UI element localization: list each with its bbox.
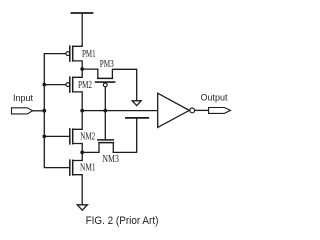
node B junction (NM1 drain / NM2 source / NM3 source)	[80, 151, 84, 155]
wire NM3 drain to VDD T-bar	[113, 119, 136, 153]
transistor NM1	[70, 152, 82, 204]
wire VDD rail to PM1 source	[73, 14, 83, 47]
svg-text:NM2: NM2	[80, 132, 95, 143]
node X junction (PM3/NM3 gates tap)	[103, 109, 107, 113]
node X junction (PM2/NM2 drains)	[80, 109, 84, 113]
junction on bus (input tap)	[42, 109, 46, 113]
junction on bus (NM2 gate tap)	[42, 135, 46, 139]
ground (PM3 drain arrow)	[132, 101, 141, 106]
svg-text:FIG. 2 (Prior Art): FIG. 2 (Prior Art)	[86, 215, 159, 227]
transistor PM2	[66, 69, 82, 111]
svg-text:PM2: PM2	[78, 80, 92, 91]
output terminal flag	[209, 108, 231, 114]
wire node X to inverter input	[82, 110, 158, 112]
transistor NM2	[70, 111, 82, 153]
wire input terminal to gate bus	[33, 110, 45, 112]
svg-text:PM1: PM1	[82, 49, 96, 60]
node A junction (PM1 drain / PM2 source / PM3 source)	[80, 67, 84, 71]
power VDD (NM3 drain T-bar)	[126, 117, 148, 119]
svg-text:PM3: PM3	[100, 59, 114, 70]
svg-text:NM3: NM3	[102, 154, 119, 165]
svg-text:Output: Output	[201, 93, 229, 103]
junction on bus (PM2 gate tap)	[42, 83, 46, 87]
wire input gate bus	[44, 54, 69, 168]
transistor PM1	[66, 46, 82, 69]
transistor NM3	[82, 111, 113, 153]
ground (NM1 source arrow)	[77, 205, 87, 210]
power rail VDD (top T-bar)	[71, 12, 92, 14]
input terminal flag	[12, 108, 33, 114]
svg-text:Input: Input	[13, 93, 34, 103]
wire node A to PM3 source	[82, 68, 98, 70]
wire inverter to output terminal	[195, 109, 209, 111]
transistor PM3	[96, 69, 137, 111]
svg-text:NM1: NM1	[80, 162, 96, 173]
op-amp U1 (output inverter)	[158, 93, 195, 127]
